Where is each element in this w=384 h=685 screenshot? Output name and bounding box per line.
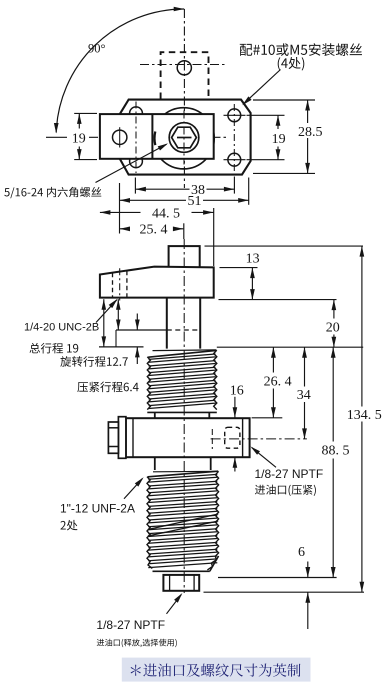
label 进油口(压紧) [255, 485, 316, 496]
dim 19 arm width: ext line top [74, 112, 97, 114]
lower thread 1-12 UNF section [148, 474, 217, 479]
ext tick at stud centerline (25.4 right end) [183, 223, 185, 239]
phantom arm hole circle [177, 61, 191, 75]
arm-boss joint line [151, 114, 153, 159]
label (4处) [278, 57, 305, 70]
svg-text:19: 19 [72, 132, 86, 147]
label 配#10或M5安装螺丝 [240, 43, 362, 56]
hex socket [172, 127, 197, 148]
footer note band [122, 658, 311, 682]
bottom boss hex line right [193, 575, 195, 591]
mounting hole top-right [228, 109, 241, 122]
centerline horizontal main axis of plan view [89, 136, 229, 138]
lower thread bottom right taper [210, 556, 219, 571]
full-stroke line left segment [99, 346, 144, 348]
label 旋转行程12.7 [60, 356, 128, 367]
svg-text:90°: 90° [88, 41, 106, 55]
centerline tick right bottom hole [224, 159, 246, 161]
svg-text:16: 16 [230, 384, 244, 399]
bottom port boss (hex) [163, 575, 199, 591]
footer note text 进油口及螺纹尺寸为英制 [131, 664, 301, 677]
dim 20 line [333, 300, 335, 319]
lower thread bottom edge [153, 570, 210, 572]
dim 28.5 ext top [253, 99, 315, 101]
lower thread near-horizontal top line [153, 470, 218, 473]
dim 44.5 line [100, 211, 141, 213]
dim 51 line [120, 199, 187, 201]
clamp arm plan view (covers boss) [100, 114, 214, 159]
dim 26.4 line [272, 347, 274, 372]
svg-text:25. 4: 25. 4 [140, 223, 168, 238]
leader to pressure port [252, 448, 276, 468]
label 总行程19 [29, 343, 78, 354]
mounting hole top-left [130, 107, 143, 120]
ext line arm-hole center column [119, 183, 121, 234]
arrowhead at top of swing arc [174, 7, 185, 12]
dim 19 hole spacing: ext top [247, 114, 285, 116]
hex screw slot line [177, 137, 192, 139]
label 压紧行程6.4 [77, 382, 138, 393]
svg-text:51: 51 [188, 194, 202, 209]
lower thread top edge [148, 471, 218, 477]
dim clamp stroke 6.4 arrows [136, 314, 138, 331]
neck below body left [154, 457, 156, 470]
bottom boss hex line left [169, 575, 171, 591]
centerline right hole column [233, 104, 235, 171]
leader to release port [167, 595, 182, 614]
plan view body outline with chamfered corners [120, 100, 251, 175]
neck below upper thread left [154, 412, 156, 418]
hex plug flat line top [108, 427, 118, 429]
5/16-24 hex socket screw outer circle [169, 123, 199, 153]
hex screw vertical centerline [183, 111, 185, 165]
arm hole vertical centerline tick [119, 127, 121, 147]
centerline tick right top hole [224, 114, 246, 116]
body inner line right [242, 418, 244, 457]
phantom arm rotated 90deg (hidden square) [161, 52, 209, 99]
dim 16 arrows [234, 397, 236, 418]
top threaded stud block [169, 246, 200, 268]
stud left edge below arm [166, 298, 168, 349]
valve body block [126, 418, 250, 457]
body left collar [118, 417, 126, 459]
svg-text:1/8-27 NPTF: 1/8-27 NPTF [96, 618, 165, 632]
boss circle edge visible at arm joint [153, 132, 156, 146]
dim 19 hole spacing line [277, 115, 279, 129]
ext line arm bottom right [219, 299, 337, 301]
upper thread 1-12 UNF section [149, 354, 216, 359]
neck below upper thread right [208, 412, 210, 418]
hidden clamp-bolt hole right edge [126, 271, 128, 298]
thread runout line 2 [148, 521, 218, 536]
hex plug on left [108, 422, 118, 453]
dim 38 ext left [134, 178, 136, 194]
label 5/16-24 内六角螺丝 [4, 187, 101, 198]
upper thread bottom edge [147, 411, 217, 413]
label 2处 (2 places) [60, 520, 77, 531]
dim 19 hole spacing: ext bottom [247, 159, 285, 161]
body inner line left [132, 418, 134, 457]
svg-text:134. 5: 134. 5 [347, 408, 382, 423]
leader to lower UNF thread [124, 479, 142, 499]
svg-text:20: 20 [326, 320, 340, 335]
swing-complete stroke line [116, 329, 167, 331]
90-degree swing arc [56, 9, 184, 133]
dim 38 ext right [233, 177, 235, 194]
dim 6 arrows [307, 562, 309, 578]
dim 34 line [304, 347, 306, 386]
ext line bottom boss top right [218, 577, 337, 579]
ext line part bottom right [204, 591, 365, 593]
ext line arm top right [220, 267, 258, 269]
thread runout line 1 [148, 514, 218, 530]
mounting hole bottom-right [228, 153, 241, 166]
dim 88.5 line [332, 347, 334, 441]
dim 134.5 line [361, 246, 363, 406]
upper thread top edge [148, 350, 216, 357]
port vertical centerline tick [211, 429, 213, 449]
cylinder boss circle [153, 108, 214, 169]
centerline horizontal main axis left segment [46, 136, 67, 138]
stud right edge below arm [199, 298, 201, 349]
svg-text:19: 19 [272, 132, 286, 147]
svg-text:28.5: 28.5 [298, 125, 323, 140]
upper thread near-horizontal top line [153, 349, 217, 352]
neck below body right [210, 457, 212, 470]
hidden oil port (dashed) [225, 427, 240, 448]
svg-text:26. 4: 26. 4 [264, 374, 292, 389]
ext line arm right edge up [213, 208, 215, 266]
dim swing stroke 12.7 line [117, 299, 119, 330]
dim 19 arm width line [78, 113, 80, 128]
ext line top of stud block [205, 245, 364, 247]
centerline horizontal of phantom arm position [140, 64, 227, 66]
dim 13 line [251, 268, 253, 300]
svg-text:1/8-27 NPTF: 1/8-27 NPTF [255, 467, 324, 481]
svg-text:6: 6 [298, 545, 305, 560]
dim 25.4 line [120, 228, 129, 230]
svg-text:44. 5: 44. 5 [152, 206, 180, 221]
svg-text:1"-12 UNF-2A: 1"-12 UNF-2A [60, 501, 135, 515]
ext line body top right [252, 417, 283, 419]
centerline vertical through plan view and phantom arm [183, 9, 185, 188]
leader to 1/4-20 thread [96, 300, 117, 323]
centerline left hole column [135, 102, 137, 174]
hidden clamp-bolt hole left edge [112, 273, 114, 298]
dim 51 ext right [248, 178, 250, 205]
side view centerline of stud [183, 239, 185, 593]
dim 28.5 ext bottom [253, 172, 315, 174]
ext line full-stroke right [217, 346, 363, 348]
clamp arm side view [100, 267, 214, 298]
dim 38 line [135, 188, 189, 190]
arm clamp-bolt hole [113, 130, 127, 144]
port horizontal centerline [211, 438, 307, 440]
arrowhead at left end of swing arc [54, 123, 59, 134]
svg-text:1/4-20 UNC-2B: 1/4-20 UNC-2B [24, 321, 99, 333]
stroke-line connector tick [115, 330, 117, 347]
svg-text:88. 5: 88. 5 [322, 444, 350, 459]
svg-text:34: 34 [297, 388, 311, 403]
leader to mounting screw hole [243, 70, 280, 105]
mounting hole bottom-left [130, 155, 143, 168]
leader to hex socket screw [96, 144, 167, 182]
clamp-bolt hole centerline [119, 268, 121, 300]
svg-text:13: 13 [246, 252, 260, 267]
hex plug flat line bottom [108, 446, 118, 448]
dim 28.5 line [307, 100, 309, 123]
label 进油口(释放,选择使用) [97, 639, 177, 647]
dim total stroke 19 line [103, 299, 105, 347]
dim 19 arm width: ext line bottom [74, 159, 97, 161]
